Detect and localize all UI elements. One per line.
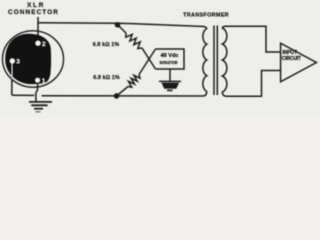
svg-text:6.8 kΩ 1%: 6.8 kΩ 1% — [93, 75, 120, 81]
svg-text:TRANSFORMER: TRANSFORMER — [183, 12, 229, 18]
svg-text:source: source — [159, 60, 177, 66]
svg-text:3: 3 — [16, 59, 20, 66]
svg-text:CONNECTOR: CONNECTOR — [8, 9, 59, 16]
svg-text:CIRCUIT: CIRCUIT — [282, 56, 301, 62]
svg-text:48 Vdc: 48 Vdc — [160, 53, 178, 59]
svg-text:1: 1 — [42, 78, 46, 85]
svg-text:6.8 kΩ 1%: 6.8 kΩ 1% — [93, 42, 120, 48]
svg-text:XLR: XLR — [27, 2, 45, 9]
svg-text:2: 2 — [42, 41, 46, 48]
